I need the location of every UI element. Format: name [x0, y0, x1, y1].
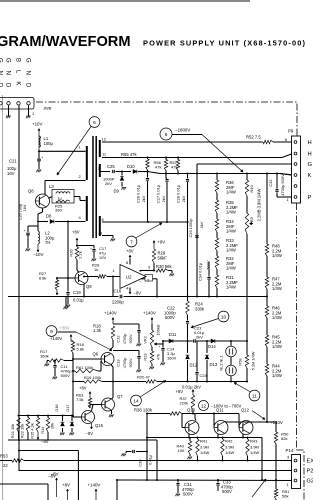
label VR3 vertical — [249, 216, 254, 225]
svg-text:1/4W: 1/4W — [226, 190, 236, 195]
P9 pin label K — [308, 173, 312, 179]
label L2 — [45, 231, 55, 246]
potentiometer VR2 — [150, 324, 158, 347]
svg-text:H: H — [308, 140, 312, 146]
svg-text:R15 4.3k: R15 4.3k — [30, 423, 35, 439]
svg-text:Q12: Q12 — [241, 408, 250, 413]
node C35 junction — [146, 451, 148, 453]
svg-text:Q7: Q7 — [117, 394, 123, 399]
node D16 tap — [62, 415, 64, 417]
svg-text:14: 14 — [133, 399, 139, 405]
resistor R41 — [196, 437, 199, 462]
svg-text:2kV: 2kV — [199, 221, 204, 228]
resistor R51 — [274, 489, 277, 500]
arrow +140V bottom — [95, 489, 97, 500]
subtitle POWER SUPPLY UNIT (X68-1570-00) — [143, 39, 306, 48]
gray page top border — [0, 0, 250, 2]
connector JWB label — [43, 106, 52, 111]
wire R52 to P9 pin6 — [273, 141, 292, 143]
wire A rail 341 — [163, 340, 247, 342]
ground under C11 — [52, 377, 57, 379]
label D11 — [169, 332, 177, 337]
svg-text:R55 47k: R55 47k — [121, 152, 138, 157]
wire label BLK pin3 — [15, 58, 21, 93]
P14 pin3 number — [287, 455, 290, 460]
wire R22 bottom — [27, 432, 29, 440]
capacitor C21 — [37, 156, 44, 161]
svg-text:G2: G2 — [307, 479, 314, 485]
svg-text:D14: D14 — [208, 344, 216, 349]
svg-text:−8V: −8V — [51, 472, 59, 477]
node R57 bottom — [177, 173, 179, 175]
ground under D17 — [69, 433, 74, 435]
capacitor C24 — [195, 341, 198, 382]
transformer pin1 label — [79, 145, 82, 150]
wire Q10 emitter — [188, 434, 190, 439]
svg-text:100kB: 100kB — [156, 324, 161, 335]
label Q15 — [95, 423, 104, 428]
diode D13 — [205, 341, 209, 382]
svg-text:+8V: +8V — [126, 249, 134, 254]
svg-text:Q15: Q15 — [95, 423, 104, 428]
svg-text:R23: R23 — [143, 353, 148, 360]
svg-text:R41: R41 — [200, 439, 208, 444]
label C17 — [99, 246, 107, 260]
svg-text:16k: 16k — [50, 423, 55, 429]
label R50 82k — [281, 432, 289, 442]
svg-text:500V: 500V — [128, 358, 133, 367]
label -8V bottom — [51, 472, 59, 477]
transformer pin6 label — [102, 217, 105, 222]
svg-text:12: 12 — [201, 404, 207, 410]
label R41 — [200, 439, 210, 456]
svg-text:+8V: +8V — [158, 240, 166, 245]
resistor R49 — [245, 174, 248, 197]
wire rail 450 — [18, 450, 78, 452]
wire Q15 collector up — [92, 405, 94, 412]
wire between R46 R45 — [266, 318, 268, 335]
P14 pin label G2 — [307, 479, 314, 485]
op-amp + sign — [139, 269, 142, 274]
wire emitter rail drop x262 — [261, 438, 263, 482]
arrow -8V U2 — [129, 289, 141, 296]
label C28 vertical — [176, 185, 187, 203]
label R21 vertical — [10, 424, 15, 439]
svg-text:P9: P9 — [288, 129, 294, 134]
svg-text:VR2: VR2 — [143, 336, 148, 344]
svg-text:+: + — [159, 345, 161, 349]
svg-text:2.2k: 2.2k — [78, 251, 83, 258]
transformer primary winding 3-4 — [86, 196, 88, 221]
label R40 100 — [177, 444, 185, 454]
P14 pin circle G2 — [294, 479, 297, 482]
svg-text:GND: GND — [25, 58, 31, 95]
resistor R50 — [274, 422, 277, 444]
label R37 220k — [180, 396, 189, 406]
label C35 vertical — [138, 455, 153, 466]
power arrow +8V R63 — [89, 392, 91, 399]
capacitor C13 — [137, 351, 140, 370]
node A x207 — [206, 340, 208, 342]
wire R18 to Q6 collector — [111, 340, 114, 350]
label D10 — [127, 164, 135, 169]
wire R50 to P2 crossing — [0, 0, 1, 1]
svg-text:2.2MB 3.9M 1/4W: 2.2MB 3.9M 1/4W — [257, 188, 262, 221]
wire pin7 rail K — [100, 171, 110, 173]
svg-text:1/4W: 1/4W — [272, 286, 282, 291]
node A x247 — [246, 340, 248, 342]
op-amp U2 triangle — [120, 265, 146, 289]
capacitor C35 — [126, 450, 147, 453]
wire R44 to +140V node — [266, 376, 268, 422]
label C22 — [164, 306, 176, 321]
P9 pin circle 1 — [294, 196, 297, 199]
svg-text:+8V: +8V — [62, 483, 70, 488]
wire R23 to ground — [151, 364, 153, 366]
ground under JWB pin1 — [6, 116, 11, 118]
svg-text:−8V: −8V — [134, 291, 142, 296]
wire R48 ladder top — [266, 173, 268, 245]
JWB pin circle 4 — [27, 102, 30, 105]
svg-text:D13: D13 — [210, 362, 218, 367]
JWB pin circle 2 — [7, 102, 10, 105]
callout circle 14 — [131, 395, 142, 406]
label -10V — [33, 252, 43, 257]
op-amp pin1 label — [113, 268, 116, 273]
capacitor C11 — [53, 366, 56, 377]
transformer pin4 label — [79, 215, 82, 220]
transistor Q7 — [102, 398, 115, 411]
svg-text:1/4W: 1/4W — [200, 450, 210, 455]
wire drop x147 — [146, 413, 148, 482]
resistor R28 — [83, 275, 120, 278]
capacitor C34 — [207, 262, 210, 298]
label C20 vertical — [19, 204, 28, 221]
resistor R38 — [170, 412, 182, 415]
ground under R17 — [44, 364, 49, 366]
resistor R27 — [55, 277, 68, 290]
svg-text:EX: EX — [307, 459, 314, 465]
wire D8 junction down to Q9 base rail — [67, 222, 69, 291]
svg-text:C16: C16 — [114, 289, 122, 294]
box bottom-left — [0, 484, 48, 500]
svg-text:1/4W: 1/4W — [226, 210, 236, 215]
svg-text:R61 100k: R61 100k — [76, 365, 93, 370]
label R35 — [226, 200, 238, 215]
svg-text:4700p: 4700p — [122, 358, 127, 369]
resistor R57 — [176, 158, 179, 174]
svg-text:1/4W: 1/4W — [272, 253, 282, 258]
capacitor C11 branch — [54, 360, 56, 365]
svg-text:POWER SUPPLY UNIT (X68-1570-00: POWER SUPPLY UNIT (X68-1570-00) — [143, 39, 306, 48]
node R56 top — [165, 157, 167, 159]
wire JWB pin2 down long — [18, 105, 20, 415]
svg-text:1.3k: 1.3k — [93, 328, 102, 333]
wire label GND pin4 — [25, 58, 31, 95]
resistor R40 — [188, 438, 191, 455]
node D9 tap — [121, 171, 123, 173]
svg-text:P14: P14 — [286, 448, 294, 453]
label Q7 — [117, 394, 123, 399]
svg-text:GND: GND — [0, 58, 3, 95]
wire JWB pin1 to ground — [8, 105, 10, 116]
callout circle 7 — [126, 236, 137, 247]
wire ladder above R31 — [216, 269, 218, 275]
svg-text:7H: 7H — [45, 240, 50, 245]
svg-text:D10: D10 — [127, 164, 135, 169]
connector JWB box — [0, 98, 34, 110]
inductor L3 box — [52, 190, 74, 204]
svg-text:8: 8 — [165, 132, 168, 138]
svg-text:1/4W: 1/4W — [225, 450, 235, 455]
label R20 47 — [137, 375, 151, 380]
resistor R31 — [215, 275, 218, 288]
inductor L1 — [39, 136, 40, 147]
label R24 330k — [195, 302, 205, 312]
wire rail 480 (G2) — [117, 479, 292, 482]
svg-text:500V: 500V — [128, 334, 133, 343]
resistor R35 — [215, 200, 218, 213]
label -100V to -700V — [211, 404, 241, 409]
svg-text:R26: R26 — [69, 249, 74, 256]
ground under R40 — [187, 454, 192, 459]
label Q9 — [86, 284, 92, 289]
P9 pin circle 5 — [294, 152, 297, 155]
label R22 vertical — [20, 424, 25, 439]
callout circle 11 — [249, 390, 260, 401]
capacitor C12 branch — [113, 324, 139, 330]
node C32 top — [276, 173, 278, 175]
label R29 56kF — [158, 251, 168, 261]
wire Q11Q12 collector rail — [225, 421, 267, 422]
callout 9 pointer — [58, 332, 113, 351]
label +140V mid — [143, 311, 156, 316]
label C11 — [61, 364, 73, 378]
label D9 — [114, 189, 120, 194]
wire C25 to D10 — [116, 171, 132, 173]
svg-text:47k: 47k — [155, 165, 161, 170]
node C27 bottom — [166, 221, 168, 223]
label R27 6.8k — [39, 271, 46, 280]
svg-text:R21 10k: R21 10k — [10, 424, 15, 439]
svg-text:12: 12 — [102, 137, 107, 142]
capacitor C25 — [113, 170, 115, 173]
node rail460 x19 — [18, 416, 20, 471]
resistor R25 inside box bottom — [56, 200, 70, 202]
svg-text:C20 100μ: C20 100μ — [19, 204, 23, 221]
wire R63 to Q7 base — [90, 405, 102, 409]
resistor R46 — [265, 306, 268, 318]
node A x197 — [0, 0, 1, 1]
resistor R47 — [265, 277, 268, 289]
svg-text:+140V: +140V — [143, 311, 156, 316]
svg-text:H: H — [308, 152, 312, 158]
svg-text:2200p: 2200p — [112, 300, 124, 305]
label +8V bottom — [62, 483, 70, 488]
svg-text:56kF: 56kF — [158, 255, 168, 260]
node C32 bottom P rail — [0, 0, 1, 1]
resistor R32 — [215, 256, 218, 269]
svg-text:Q8: Q8 — [28, 189, 34, 194]
diode D10 — [133, 170, 147, 174]
power arrow +140V mid — [151, 318, 153, 325]
svg-text:1μ: 1μ — [58, 196, 62, 200]
svg-text:R42: R42 — [225, 439, 233, 444]
label C21 — [9, 159, 17, 164]
P9 pin circle 3 — [294, 174, 297, 177]
callout circle 6 — [89, 117, 100, 128]
svg-text:R20 47: R20 47 — [137, 375, 151, 380]
P9 pin1 number — [287, 197, 290, 202]
callout circle 9 — [46, 326, 57, 337]
wire C20 to ground — [27, 235, 29, 248]
label R19 100k — [84, 375, 101, 380]
wire Q11 emitter — [217, 434, 219, 439]
label D17 vertical — [65, 404, 70, 411]
wire R22 stub top — [27, 415, 29, 418]
callout 8 pointer — [172, 135, 243, 173]
svg-text:3.9M: 3.9M — [250, 444, 259, 449]
transformer secondary winding 7 — [99, 164, 101, 177]
P14 pin label P2 — [307, 469, 314, 475]
svg-text:500V: 500V — [206, 260, 211, 269]
resistor R20 — [146, 380, 157, 383]
board outline dash-dot right lower — [297, 450, 305, 500]
svg-text:1/4W: 1/4W — [272, 344, 282, 349]
label C24 value — [182, 385, 201, 390]
gray page left border — [2, 95, 4, 500]
wire base rail 416 — [19, 415, 74, 417]
callout 7 pointer — [136, 223, 163, 238]
wire Q9 emitter down — [83, 284, 85, 298]
svg-text:C21: C21 — [9, 159, 17, 164]
svg-text:390: 390 — [55, 208, 62, 213]
node +140V bottom — [266, 421, 268, 423]
label C34 vertical — [198, 260, 211, 281]
P9 pin label P — [308, 195, 312, 201]
svg-text:VR3: VR3 — [249, 216, 254, 225]
wire Q7 emitter to ground — [111, 410, 113, 414]
svg-text:+140V: +140V — [50, 336, 62, 341]
ground under C21 — [36, 170, 41, 172]
node rail x18.5 — [18, 415, 20, 417]
callout arrow to G2 rail — [252, 479, 266, 497]
wire ladder bottom to bus — [216, 288, 218, 297]
label C23 — [194, 326, 205, 340]
wire R21 bottom — [18, 432, 20, 440]
svg-text:C19: C19 — [73, 290, 81, 295]
node C26 bottom — [147, 221, 149, 223]
svg-text:+: + — [90, 247, 92, 251]
svg-text:10: 10 — [221, 315, 227, 321]
wire JWB pin3 to ground — [28, 105, 30, 116]
P9 pin label H — [308, 152, 312, 158]
resistor R34 — [215, 219, 218, 232]
op-amp pin2 stub — [141, 275, 158, 298]
node C17 tap — [76, 245, 94, 247]
ground under Q7 — [109, 415, 114, 417]
transistor Q9 — [75, 272, 88, 285]
transformer core bar left — [92, 136, 94, 238]
inductor L3 coil — [56, 192, 70, 194]
wire opamp pin1 feedback down — [112, 276, 114, 297]
transformer core bar right — [95, 136, 97, 238]
resistor R24 — [186, 297, 189, 321]
label R33 — [226, 238, 238, 253]
arrow R15 bottom -8V — [37, 432, 49, 444]
label C31 — [182, 482, 194, 497]
transformer secondary winding 6-9 — [99, 216, 101, 236]
wire between R45 R44 — [266, 347, 268, 364]
wire x78 drop — [77, 451, 79, 500]
svg-text:C28 0.01μ: C28 0.01μ — [176, 185, 181, 203]
svg-text:2kV: 2kV — [141, 195, 146, 202]
label R56 47k — [154, 160, 162, 170]
resistor R26 — [75, 247, 78, 260]
inductor L2 — [38, 231, 40, 244]
label L3 value 1u — [58, 196, 62, 200]
svg-text:1/4W: 1/4W — [226, 266, 236, 271]
svg-text:82k: 82k — [281, 436, 287, 441]
ground under C19 — [65, 305, 70, 307]
wire L1 junction to transformer pin1 row — [39, 150, 86, 152]
label C32 vertical — [268, 174, 285, 196]
wire Q11 base stub — [213, 413, 215, 428]
wire Q15 emitter down -8V — [86, 423, 94, 436]
diode D14 — [211, 339, 215, 343]
resistor R44 — [265, 364, 268, 376]
svg-text:+36V: +36V — [60, 326, 70, 331]
transformer pin2 label — [79, 174, 82, 179]
svg-text:56k: 56k — [282, 494, 288, 499]
capacitor C32 — [275, 174, 278, 198]
P9 pin circle 2 — [294, 185, 297, 188]
svg-text:47k: 47k — [156, 354, 161, 360]
power arrow +8V U2 — [129, 255, 131, 265]
wire R14 stub top — [47, 415, 49, 418]
node D8 right junction — [67, 221, 69, 223]
wire VR3 down to D-network — [246, 234, 248, 341]
label L1 — [44, 136, 49, 141]
resistor R42 — [221, 437, 224, 462]
label C16 — [114, 289, 122, 294]
resistor R23 — [150, 347, 153, 364]
power arrow +8V Q9 — [76, 238, 78, 247]
label R28 1k — [92, 263, 100, 273]
label C29 vertical — [188, 218, 204, 237]
transistor Q8 — [36, 194, 50, 208]
svg-text:100μ: 100μ — [44, 141, 54, 146]
wire K rail right — [148, 172, 292, 175]
wire transformer pin9 — [102, 236, 113, 239]
svg-text:D9: D9 — [114, 189, 120, 194]
transformer pin3 label — [79, 195, 82, 200]
resistor R43 — [246, 437, 249, 462]
label R48 — [272, 244, 282, 259]
label R42 — [225, 439, 235, 456]
wire feedback bus left — [8, 296, 119, 298]
svg-text:C27 0.01μ: C27 0.01μ — [156, 185, 161, 203]
wire Q15 base — [73, 416, 82, 418]
label +8V Q9 — [72, 230, 80, 235]
svg-text:1/4W: 1/4W — [226, 248, 236, 253]
label C25 value — [103, 177, 115, 187]
svg-text:Q6: Q6 — [93, 352, 99, 357]
svg-text:BLK: BLK — [15, 58, 21, 93]
resistor R37 — [191, 395, 194, 410]
wire emitter rail 437 — [146, 437, 262, 439]
svg-text:+140V: +140V — [88, 483, 101, 488]
